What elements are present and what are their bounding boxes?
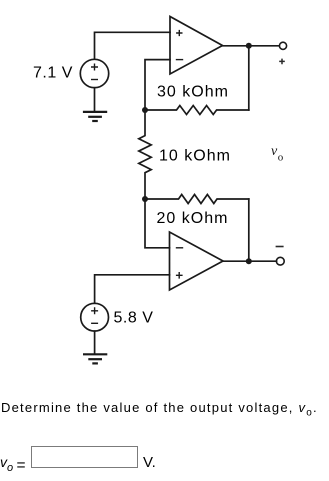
wire U1 output to node B — [223, 45, 280, 47]
node C junction dot — [142, 196, 148, 202]
resistor R3 20 kOhm — [145, 195, 249, 204]
terminal circle bottom — [276, 257, 284, 265]
ground G1 — [83, 112, 107, 121]
U1 - pin label — [176, 59, 183, 61]
resistor R2 10 kOhm — [139, 110, 151, 199]
wire node B down right side — [248, 46, 250, 110]
wire + input top from source to U1 — [95, 32, 171, 59]
terminal - label — [276, 246, 284, 248]
V unit — [143, 454, 156, 471]
op-amp U2 — [170, 232, 224, 290]
wire node C to U2 - input — [145, 199, 170, 248]
node A junction dot — [142, 107, 148, 113]
op-amp U1 — [170, 17, 223, 75]
wire V1 to ground — [94, 88, 96, 112]
svg-text:7.1 V: 7.1 V — [33, 65, 73, 82]
resistor R1 30 kOhm — [145, 106, 249, 115]
terminal + label — [279, 59, 285, 65]
node D junction dot — [246, 258, 252, 264]
svg-text:30 kOhm: 30 kOhm — [157, 84, 229, 101]
ground G2 — [83, 354, 107, 363]
V2 polarity marks — [91, 307, 98, 323]
equals sign — [17, 457, 26, 475]
svg-text:20 kOhm: 20 kOhm — [157, 210, 229, 227]
U2 + pin label — [176, 272, 183, 279]
svg-text:5.8 V: 5.8 V — [114, 310, 154, 327]
U1 + pin label — [176, 30, 183, 60]
V1 polarity marks — [91, 64, 98, 80]
terminal circle top — [279, 42, 286, 49]
wire U2 + input to source V2 — [95, 275, 170, 304]
node B junction dot — [246, 43, 252, 49]
input box — [31, 446, 138, 468]
question text — [1, 400, 318, 419]
wire right side down to U2 output node — [248, 199, 250, 261]
svg-text:o: o — [278, 151, 284, 163]
wire U2 output to terminal — [223, 260, 277, 262]
source V2 5.8V circle — [81, 303, 109, 331]
answer label vo — [0, 454, 13, 474]
wire - input U1 down to node A — [145, 60, 170, 110]
U2 - pin label — [176, 248, 183, 279]
svg-text:10 kOhm: 10 kOhm — [159, 148, 231, 165]
wire V2 to ground — [94, 331, 96, 354]
source V1 7.1V circle — [80, 59, 108, 87]
